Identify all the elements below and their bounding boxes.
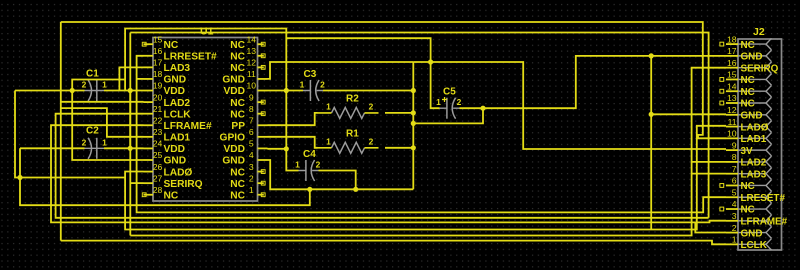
svg-text:6: 6 (732, 176, 737, 186)
svg-text:12: 12 (247, 58, 257, 68)
J2 pin 3 LFRAME# (726, 220, 738, 222)
svg-text:NC: NC (741, 205, 755, 216)
svg-text:6: 6 (249, 127, 254, 137)
svg-text:LADØ: LADØ (741, 122, 769, 133)
svg-text:19: 19 (153, 81, 163, 91)
svg-text:11: 11 (247, 69, 256, 79)
svg-text:14: 14 (247, 34, 257, 44)
svg-text:14: 14 (727, 81, 737, 91)
wire SERIRQ bottom line and riser x691 to J2 pin16 (130, 68, 726, 236)
wire U1 pin4 GND down to bottom rail (268, 160, 414, 189)
svg-text:5: 5 (249, 139, 254, 149)
svg-text:1: 1 (326, 102, 331, 112)
J2 pin 6 NC (726, 184, 738, 186)
U1 pin 27 SERIRQ (left) (144, 182, 154, 184)
J2 pin 17 GND (726, 55, 738, 57)
U1 pin 13 NC (right) (258, 55, 264, 57)
U1 pin 21 LCLK (left) (144, 113, 154, 115)
J2 pin 4 NC (726, 208, 738, 210)
svg-text:SERIRQ: SERIRQ (741, 63, 779, 74)
U1 pin 22 LFRAME# (left) (144, 124, 154, 126)
svg-text:23: 23 (153, 127, 163, 137)
svg-text:GND: GND (164, 156, 187, 167)
svg-text:NC: NC (230, 98, 245, 109)
svg-text:C3: C3 (304, 69, 317, 80)
svg-text:VDD: VDD (164, 144, 186, 155)
svg-text:LAD3: LAD3 (164, 63, 191, 74)
svg-text:J2: J2 (753, 26, 765, 38)
svg-text:C1: C1 (86, 69, 99, 80)
svg-text:20: 20 (153, 92, 163, 102)
svg-text:1: 1 (732, 235, 737, 245)
wire U1 pin22 LFRAME rail x51 to J2 pin3 (51, 125, 726, 222)
J2 pin 2 GND (726, 232, 738, 234)
svg-text:NC: NC (230, 40, 245, 51)
wire U1 pin7 PP to R2 pin1 (268, 113, 318, 125)
junction x413 at R2 row (411, 110, 416, 115)
wire C2 row left corner (20, 147, 85, 149)
junction C1 GND side (70, 88, 75, 93)
svg-text:9: 9 (732, 140, 737, 150)
wire y38 line from VDD rail to C5 riser (286, 38, 439, 108)
svg-text:2: 2 (82, 137, 87, 147)
junction VDD rail at U1 pin5 row (284, 146, 289, 151)
svg-text:NC: NC (741, 99, 755, 110)
svg-text:10: 10 (727, 129, 737, 139)
svg-text:NC: NC (230, 109, 245, 120)
wire VDD drop C1 row to C2 row (129, 91, 131, 149)
svg-text:2: 2 (457, 97, 462, 107)
svg-text:25: 25 (153, 150, 163, 160)
capacitor C3 (316, 80, 319, 101)
U1 pin 7 PP (right) (258, 124, 268, 126)
wire C1 row left segment (15, 90, 85, 92)
wire U1 pin6 GPIO to R1 pin1 (268, 137, 318, 148)
wire LAD0 jog up to U1 pin26 (125, 172, 143, 178)
svg-text:GND: GND (741, 110, 763, 121)
J2 pin 11 LADØ (726, 126, 738, 128)
svg-text:1: 1 (249, 185, 254, 195)
svg-text:1: 1 (326, 137, 331, 147)
svg-text:13: 13 (247, 46, 257, 56)
svg-text:3V: 3V (741, 146, 753, 157)
wire C5 branch down to x413 rail (413, 108, 483, 123)
svg-text:NC: NC (230, 190, 245, 201)
wire LAD0 drop to bundle and riser to J2 pin11 (125, 126, 726, 230)
svg-text:GND: GND (741, 52, 763, 63)
wire U1 pin10 VDD to C3 pin1 (268, 90, 304, 92)
svg-text:NC: NC (741, 181, 755, 192)
svg-text:2: 2 (732, 223, 737, 233)
U1 pin 5 VDD (right) (258, 147, 268, 149)
svg-text:12: 12 (727, 105, 737, 115)
U1 pin 14 NC (right) (258, 43, 264, 45)
svg-text:15: 15 (153, 34, 163, 44)
svg-text:10: 10 (247, 81, 257, 91)
junction C5 pin2 branch (480, 106, 485, 111)
U1 pin 24 VDD (left) (144, 147, 154, 149)
svg-text:LCLK: LCLK (164, 109, 192, 120)
junction x413 at R1 row (411, 145, 416, 150)
svg-text:4: 4 (249, 150, 254, 160)
wire top line y32.5 to x708 drop (130, 33, 708, 218)
wire bottom line y241 to J2 pin1 LCLK (61, 241, 726, 245)
svg-text:4: 4 (732, 199, 737, 209)
svg-text:NC: NC (230, 179, 245, 190)
capacitor C1 (88, 80, 91, 101)
svg-text:GPIO: GPIO (220, 133, 246, 144)
J2 pin 16 SERIRQ (726, 67, 738, 69)
wire U1 pin21 LCLK rail x55.6 (56, 114, 709, 218)
svg-text:1: 1 (300, 80, 305, 90)
wire C3 pin2 to x413 (323, 90, 413, 92)
svg-text:2: 2 (249, 173, 254, 183)
wire R2 pin2 to x413 (385, 112, 413, 114)
U1 pin 9 NC (right) (258, 101, 264, 103)
svg-text:8: 8 (249, 104, 254, 114)
wire GND vertical x651 (650, 56, 652, 230)
wire C4 pin2 drop (319, 171, 356, 190)
U1 pin 19 VDD (left) (144, 90, 154, 92)
U1 pin 18 GND (left) (144, 78, 154, 80)
wire GND riser x413 (412, 62, 414, 189)
svg-text:NC: NC (164, 40, 179, 51)
svg-text:GND: GND (222, 156, 245, 167)
junction VDD rail at C3 pin1 (284, 88, 289, 93)
U1 pin 11 GND (right) (258, 78, 268, 80)
wire C1 pin1 to U1 pin19 VDD (104, 90, 144, 92)
svg-text:C4: C4 (303, 149, 316, 160)
wire C5 pin2 east to J2 pin17 GND (460, 56, 727, 108)
svg-text:LFRAME#: LFRAME# (164, 121, 212, 132)
J2 pin 5 LRESET# (726, 196, 738, 198)
svg-text:NC: NC (230, 51, 245, 62)
wire U1 pin23 LAD1 jog to x61 rail (61, 108, 144, 137)
junction bottom GND rail x309.8 (307, 187, 312, 192)
svg-text:LAD2: LAD2 (741, 158, 767, 169)
svg-text:21: 21 (153, 104, 163, 114)
svg-text:NC: NC (741, 40, 755, 51)
wire U1 pin16 LRRESET rail x136.6 (137, 56, 726, 213)
U1 pin 1 NC (right) (258, 194, 264, 196)
svg-text:18: 18 (153, 69, 163, 79)
connector J2 body (738, 39, 782, 250)
svg-text:7: 7 (732, 164, 737, 174)
J2 pin 15 NC (726, 78, 738, 80)
U1 pin 8 NC (right) (258, 113, 264, 115)
svg-text:7: 7 (249, 115, 254, 125)
junction x651 at J2 pin12 line (649, 112, 654, 117)
wire x61 rail full (60, 22, 62, 241)
U1 pin 20 LAD2 (left) (144, 101, 154, 103)
svg-text:NC: NC (230, 167, 245, 178)
U1 pin 17 LAD3 (left) (144, 66, 154, 68)
svg-text:27: 27 (153, 173, 163, 183)
J2 pin 7 LAD3 (726, 173, 738, 175)
wire U1 pin20 LAD2 to x61 rail (61, 101, 144, 103)
svg-text:3: 3 (732, 211, 737, 221)
U1 pin 23 LAD1 (left) (144, 136, 154, 138)
capacitor C5 (452, 98, 455, 119)
svg-text:VDD: VDD (223, 86, 245, 97)
U1 pin 16 LRRESET# (left) (144, 55, 154, 57)
svg-text:R1: R1 (346, 129, 359, 140)
junction x413 at C5 branch row (411, 121, 416, 126)
svg-text:LRESET#: LRESET# (741, 193, 786, 204)
wire R1 pin2 to x413 (385, 147, 413, 149)
svg-text:2: 2 (369, 102, 374, 112)
svg-text:3: 3 (249, 162, 254, 172)
U1 pin 2 NC (right) (258, 182, 264, 184)
wire C1 junction down to U1 pin25 GND (72, 91, 143, 161)
J2 pin 9 3V (726, 149, 738, 151)
svg-text:LFRAME#: LFRAME# (741, 217, 788, 228)
svg-text:1: 1 (102, 137, 107, 147)
wire top GND rail x125 over U1 (125, 29, 298, 171)
J2 pin 13 NC (726, 102, 738, 104)
wire U1 pin27 SERIRQ tap (130, 182, 143, 184)
svg-text:NC: NC (164, 190, 179, 201)
svg-text:1: 1 (295, 160, 300, 170)
svg-text:U1: U1 (200, 26, 214, 38)
svg-text:NC: NC (741, 75, 755, 86)
svg-text:C5: C5 (443, 87, 456, 98)
svg-text:NC: NC (741, 87, 755, 98)
J2 pin 18 NC (726, 43, 738, 45)
U1 pin 15 NC (left) (144, 43, 154, 45)
U1 pin 25 GND (left) (144, 159, 154, 161)
svg-text:PP: PP (231, 121, 245, 132)
svg-text:GND: GND (222, 75, 245, 86)
svg-text:9: 9 (249, 92, 254, 102)
svg-text:SERIRQ: SERIRQ (164, 179, 203, 190)
U1 pin 6 GPIO (right) (258, 136, 268, 138)
svg-text:22: 22 (153, 115, 163, 125)
wire U1 pin11 GND up and right (268, 62, 414, 79)
svg-text:LAD1: LAD1 (741, 134, 767, 145)
junction x20 rail at LAD0 line (17, 175, 22, 180)
wire top line y22 to J2 pin10 with jog (61, 22, 726, 138)
capacitor C2 (88, 138, 91, 159)
svg-text:LCLK: LCLK (741, 240, 768, 251)
svg-text:8: 8 (732, 152, 737, 162)
svg-text:26: 26 (153, 162, 163, 172)
J2 pin 12 GND (726, 114, 738, 116)
svg-text:VDD: VDD (223, 144, 245, 155)
wire LAD0 rail x15 from C1 row to bottom (15, 91, 125, 178)
wire GND up from C1 junction to top rail (72, 80, 125, 91)
svg-text:GND: GND (164, 75, 187, 86)
svg-text:16: 16 (727, 58, 737, 68)
svg-text:2: 2 (82, 80, 87, 90)
svg-text:24: 24 (153, 139, 163, 149)
J2 pin 10 LAD1 (726, 137, 738, 139)
U1 pin 4 GND (right) (258, 159, 268, 161)
svg-text:LAD3: LAD3 (741, 169, 767, 180)
svg-text:17: 17 (727, 46, 737, 56)
svg-text:VDD: VDD (164, 86, 186, 97)
svg-text:2: 2 (369, 137, 374, 147)
capacitor C4 (311, 160, 314, 181)
IC U1 body (153, 38, 258, 202)
svg-text:15: 15 (727, 70, 737, 80)
wire U1 pin17 LAD3 to x119 T (119, 67, 143, 90)
wire GND drop to J2 pin2 (695, 222, 726, 232)
svg-text:LRRESET#: LRRESET# (164, 51, 218, 62)
svg-text:2: 2 (316, 160, 321, 170)
svg-text:11: 11 (728, 117, 737, 127)
wire y62 east then down to 3V line to J2 pin9 (413, 62, 726, 149)
junction bottom GND rail at C4 drop (353, 187, 358, 192)
wire x20 drop to bottom GND loop (20, 148, 310, 205)
wire GND to J2 pin12 (651, 113, 726, 115)
U1 pin 12 NC (right) (258, 66, 264, 68)
junction GND vertical x651 at J2 GND line (649, 53, 654, 58)
svg-text:17: 17 (153, 58, 163, 68)
U1 pin 10 VDD (right) (258, 90, 268, 92)
svg-text:LAD2: LAD2 (164, 98, 191, 109)
svg-text:GND: GND (741, 228, 763, 239)
svg-text:18: 18 (727, 34, 737, 44)
J2 pin 14 NC (726, 90, 738, 92)
svg-text:5: 5 (732, 187, 737, 197)
wire C2 pin1 to U1 pin24 VDD (104, 147, 144, 149)
junction C2 VDD side (128, 146, 133, 151)
wire U1 pin18 GND stub left (136, 78, 143, 80)
svg-text:28: 28 (153, 185, 163, 195)
svg-text:NC: NC (230, 63, 245, 74)
svg-text:13: 13 (727, 93, 737, 103)
U1 pin 26 LADØ (left) (144, 171, 154, 173)
resistor R1 (332, 142, 365, 153)
resistor R2 (332, 107, 365, 118)
wire SERIRQ rail x130 full (129, 33, 131, 236)
svg-text:LAD1: LAD1 (164, 133, 191, 144)
svg-text:LADØ: LADØ (164, 167, 193, 178)
wire x691 tap to J2 pin7 LAD3 (692, 173, 726, 175)
junction y62 at C5 riser (428, 59, 433, 64)
wire U1 pin5 VDD to rail dot (268, 148, 287, 150)
svg-text:2: 2 (320, 80, 325, 90)
J2 pin 1 LCLK (726, 243, 738, 245)
svg-text:16: 16 (153, 46, 163, 56)
svg-text:R2: R2 (346, 94, 359, 105)
junction x413 at C3 row (411, 88, 416, 93)
svg-text:1: 1 (102, 80, 107, 90)
junction VDD drop at C1 row (128, 88, 133, 93)
svg-text:C2: C2 (86, 126, 99, 137)
U1 pin 28 NC (left) (144, 194, 154, 196)
wire x691 tap to J2 pin8 LAD2 (692, 161, 726, 163)
J2 pin 8 LAD2 (726, 161, 738, 163)
U1 pin 3 NC (right) (258, 171, 264, 173)
svg-text:1: 1 (436, 97, 441, 107)
